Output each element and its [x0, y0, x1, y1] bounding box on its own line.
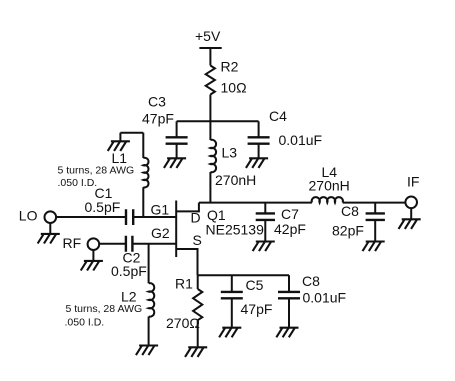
svg-text:C3: C3	[148, 94, 166, 110]
transistor Q1 channel	[175, 201, 177, 258]
wire drain node to C7	[264, 203, 266, 214]
svg-text:42pF: 42pF	[274, 221, 306, 237]
wire C4 to ground	[258, 144, 260, 159]
wire RF circle to ground	[92, 250, 94, 261]
inductor L3	[210, 140, 216, 173]
svg-text:47pF: 47pF	[142, 110, 174, 126]
svg-text:5 turns, 28 AWG: 5 turns, 28 AWG	[66, 303, 143, 315]
resistor R1	[193, 289, 202, 320]
wire C8 to ground	[374, 220, 376, 242]
ground (RF)	[81, 261, 103, 271]
svg-text:270nH: 270nH	[309, 177, 350, 193]
Q1 drain lead D	[176, 203, 199, 212]
wire L4 to C8 node	[374, 203, 376, 214]
capacitor C3	[166, 137, 188, 143]
ground (LO)	[38, 234, 60, 244]
svg-text:0.01uF: 0.01uF	[303, 290, 347, 306]
ground (C4)	[246, 158, 268, 168]
svg-text:270nH: 270nH	[215, 172, 256, 188]
wire rail to C5	[231, 275, 233, 292]
wire C3 to ground	[176, 144, 178, 159]
ground (C7)	[253, 242, 275, 252]
wire rail to L3	[209, 121, 211, 140]
wire +5V to R2	[209, 48, 211, 66]
inductor L2	[149, 283, 155, 317]
RF port circle	[88, 238, 100, 250]
svg-text:0.5pF: 0.5pF	[85, 199, 121, 215]
svg-text:R1: R1	[175, 276, 193, 292]
wire rail to C3	[176, 121, 178, 137]
wire R1 to ground	[197, 320, 199, 347]
wire IF circle to ground	[410, 208, 412, 219]
inductor L4	[312, 197, 343, 203]
resistor R2	[206, 66, 215, 95]
svg-text:C5: C5	[246, 277, 264, 293]
svg-text:R2: R2	[221, 58, 239, 74]
ground (C8 82pF)	[363, 242, 385, 252]
svg-text:.050 I.D.: .050 I.D.	[58, 177, 98, 189]
svg-text:270Ω: 270Ω	[166, 315, 200, 331]
wire RF to C2	[99, 243, 126, 245]
svg-text:0.01uF: 0.01uF	[279, 132, 323, 148]
svg-text:L2: L2	[121, 289, 137, 305]
inductor L1	[143, 158, 148, 188]
ground (R1)	[185, 347, 207, 357]
wire L1 upper segment	[142, 133, 144, 158]
svg-text:C8: C8	[302, 273, 320, 289]
svg-text:+5V: +5V	[195, 28, 221, 44]
svg-text:G1: G1	[151, 202, 170, 218]
ground (L2)	[136, 346, 158, 356]
svg-text:.050 I.D.: .050 I.D.	[65, 317, 105, 329]
capacitor C5	[221, 292, 243, 298]
ground (L1)	[108, 141, 130, 151]
wire L2 to ground	[148, 317, 150, 346]
IF port circle	[405, 197, 417, 209]
+5V power rail symbol	[199, 47, 221, 49]
svg-text:RF: RF	[63, 235, 82, 251]
capacitor C8 (82pF)	[366, 213, 385, 220]
ground (C5)	[219, 328, 241, 338]
Q1 gate2 lead wire	[132, 243, 176, 245]
svg-text:NE25139: NE25139	[206, 221, 265, 237]
wire L1 top to ground	[119, 133, 121, 142]
capacitor C2	[126, 236, 132, 252]
Q1 source lead S	[176, 249, 197, 275]
svg-text:47pF: 47pF	[241, 301, 273, 317]
wire rail to C8 bottom	[288, 275, 290, 292]
capacitor C8 (0.01uF bypass)	[278, 292, 300, 298]
wire L3 to drain node	[209, 172, 211, 203]
svg-text:IF: IF	[407, 174, 419, 190]
capacitor C1	[126, 209, 133, 225]
ground (C3)	[164, 158, 186, 168]
svg-text:C4: C4	[269, 108, 287, 124]
wire rail to C4	[258, 121, 260, 137]
capacitor C7	[256, 213, 275, 220]
wire source to R1	[197, 275, 199, 289]
wire L1 top horizontal	[120, 132, 143, 134]
ground (IF)	[399, 219, 421, 229]
wire L1 to G1 wire	[142, 187, 144, 217]
svg-text:82pF: 82pF	[332, 223, 364, 239]
svg-text:5 turns, 28 AWG: 5 turns, 28 AWG	[58, 164, 135, 176]
svg-text:S: S	[193, 232, 202, 248]
svg-text:C8: C8	[341, 203, 359, 219]
wire L2 upper segment	[148, 244, 150, 283]
wire LO circle to ground	[49, 223, 51, 234]
wire node rail C3-C4	[177, 120, 259, 122]
svg-text:10Ω: 10Ω	[221, 80, 247, 96]
wire R2 to node rail	[209, 95, 211, 122]
wire C7 to ground	[264, 220, 266, 242]
svg-text:L3: L3	[222, 145, 238, 161]
LO port circle	[45, 211, 57, 223]
wire C5 to ground	[231, 298, 233, 327]
wire C8 bottom to ground	[288, 298, 290, 327]
svg-text:LO: LO	[19, 208, 38, 224]
ground (C8 bypass)	[276, 328, 298, 338]
wire LO to C1	[57, 216, 126, 218]
svg-text:C7: C7	[281, 206, 299, 222]
Q1 gate1 lead wire	[133, 216, 176, 218]
wire source rail	[198, 274, 290, 276]
capacitor C4	[248, 137, 270, 143]
svg-text:D: D	[191, 210, 201, 226]
svg-text:0.5pF: 0.5pF	[111, 263, 147, 279]
wire drain rail	[199, 202, 406, 204]
svg-text:G2: G2	[151, 225, 170, 241]
